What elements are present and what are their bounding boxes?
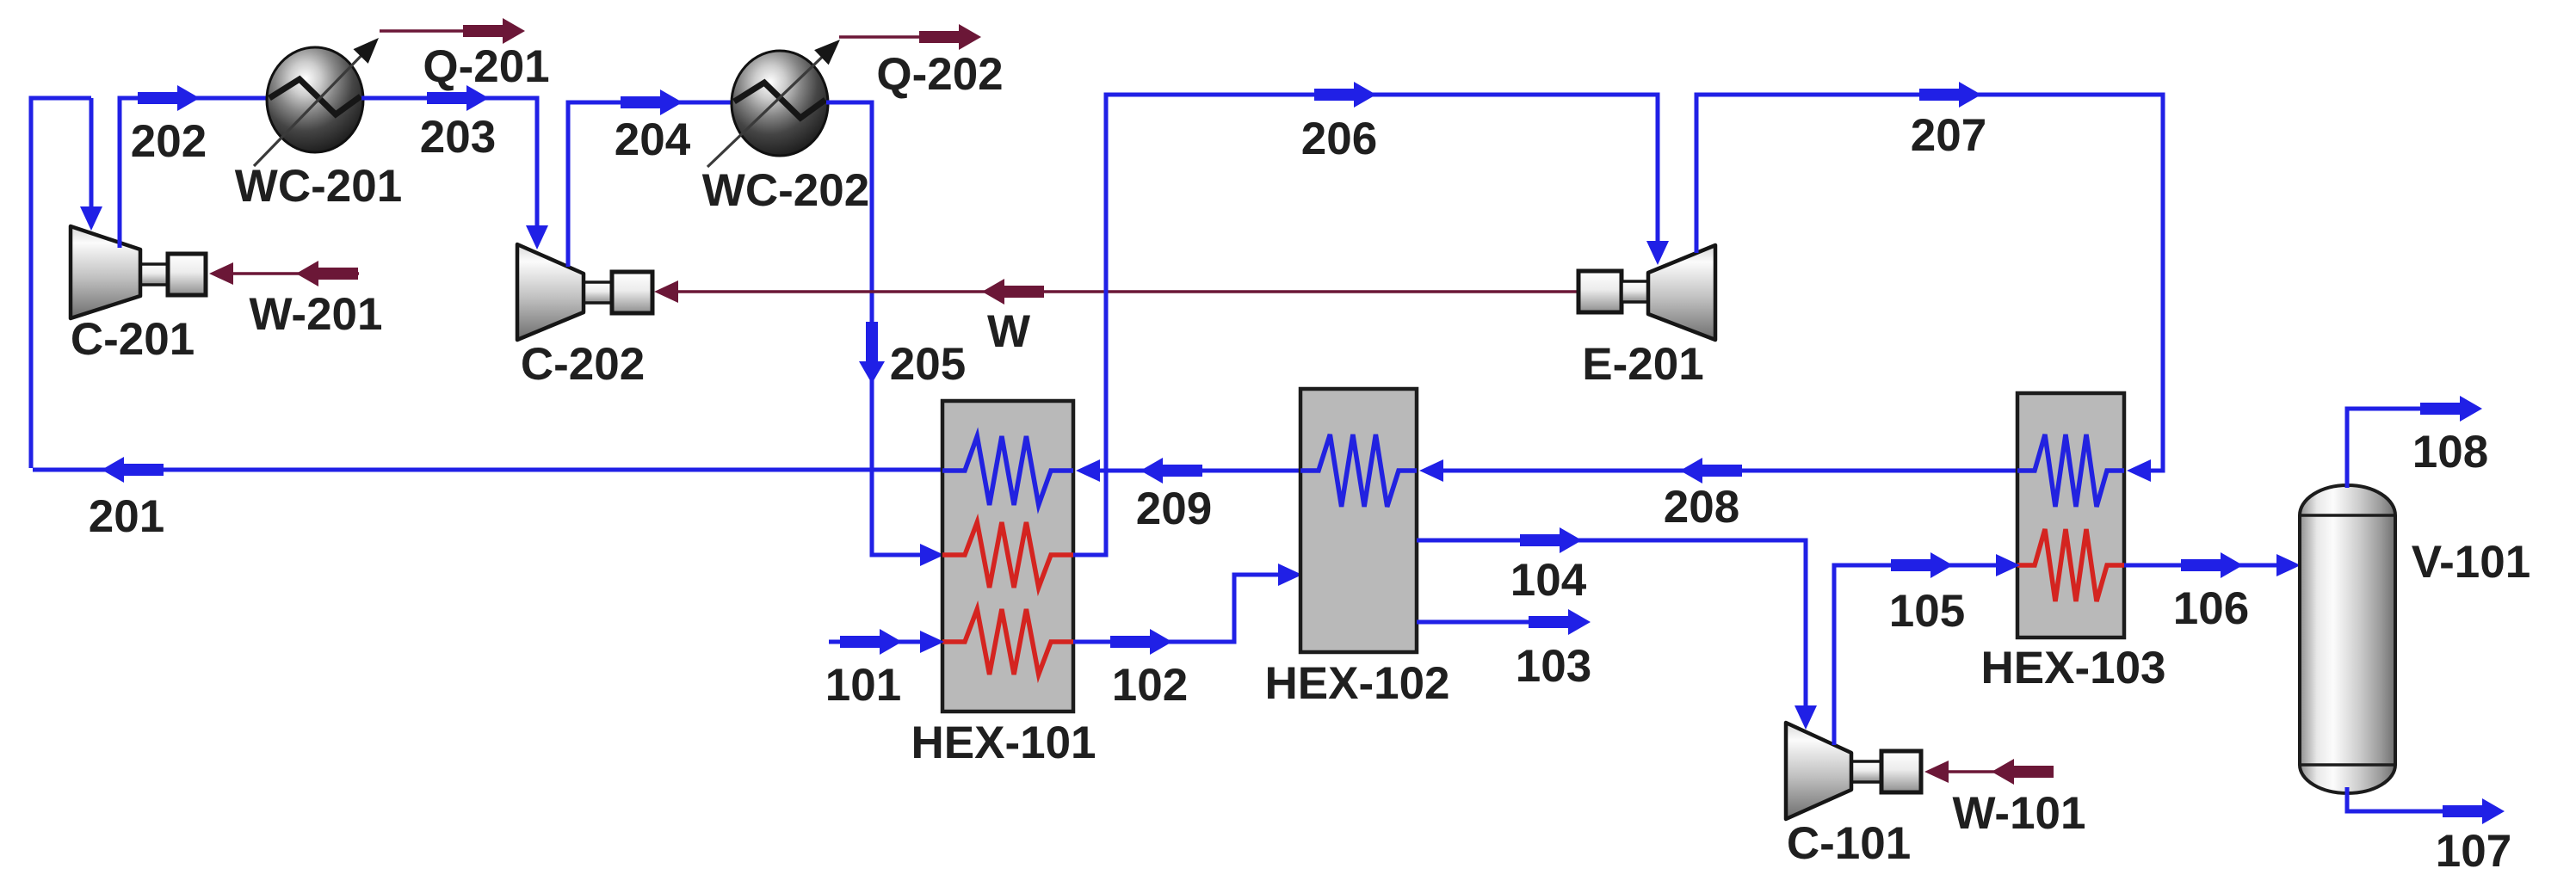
wire stream 101 feed line <box>829 640 921 644</box>
arrowhead into HEX-102 cold side <box>1419 459 1443 482</box>
wire stream 106 (HEX-103 to V-101) <box>2124 564 2276 568</box>
stream 103 direction arrow <box>1529 609 1591 635</box>
wire drop into C-201 inlet <box>90 98 94 212</box>
arrowhead into C-101 <box>1795 705 1817 730</box>
stream 201 label <box>89 491 164 542</box>
svg-text:204: 204 <box>615 114 691 165</box>
stream 206 label <box>1301 114 1377 164</box>
arrowhead into C-201 <box>80 206 102 231</box>
svg-text:W: W <box>987 306 1030 357</box>
stream 202 direction arrow <box>138 85 200 111</box>
HEX-101 label <box>911 718 1096 768</box>
wire stream 207 (E-201 to HEX-103) <box>1696 95 2163 471</box>
HEX-101 hot coil 1 (red) <box>942 522 1073 588</box>
svg-text:Q-202: Q-202 <box>876 49 1003 100</box>
stream 209 label <box>1136 484 1212 534</box>
arrowhead into C-202 <box>526 225 548 249</box>
HEX-103 label <box>1980 643 2165 693</box>
arrowhead into E-201 <box>1646 241 1669 265</box>
compressor C-202 label <box>521 339 645 390</box>
work stream W-101 label <box>1952 788 2085 839</box>
heat stream Q-202 direction arrow <box>919 24 981 50</box>
svg-text:WC-201: WC-201 <box>235 161 402 212</box>
stream 101 direction arrow <box>840 629 902 655</box>
heat exchanger HEX-102 shell <box>1300 389 1417 652</box>
HEX-103 cold coil (blue) <box>2017 434 2124 507</box>
heat exchanger HEX-103 shell <box>2017 393 2124 638</box>
work stream W direction arrow <box>982 279 1044 305</box>
arrowhead into HEX-101 cold side <box>1076 459 1100 482</box>
wire stream 105 (C-101 to HEX-103) <box>1834 565 1998 745</box>
stream 201 direction arrow <box>102 457 164 483</box>
stream 208 direction arrow <box>1680 458 1742 484</box>
stream 104 label <box>1510 555 1587 606</box>
svg-text:C-101: C-101 <box>1787 818 1911 869</box>
wire stream 205 (WC-202 outlet down to HEX-101) <box>826 102 923 555</box>
stream 202 label <box>131 116 207 167</box>
vessel V-101 label <box>2412 537 2531 588</box>
svg-text:103: 103 <box>1516 641 1591 692</box>
wire far-left vertical riser of stream 201 <box>31 98 91 468</box>
stream 106 label <box>2173 583 2249 634</box>
compressor C-201 label <box>71 314 195 365</box>
work stream W-201 label <box>249 289 382 340</box>
stream 204 direction arrow <box>621 89 683 115</box>
svg-text:205: 205 <box>890 339 966 390</box>
heat stream Q-201 line <box>380 29 469 33</box>
svg-text:W-101: W-101 <box>1952 788 2085 839</box>
stream 106 direction arrow <box>2181 552 2243 578</box>
wire stream 201 horizontal run (HEX-101 cold outlet to far left) <box>33 468 942 472</box>
svg-text:108: 108 <box>2412 427 2488 477</box>
work stream W-201 line <box>213 272 359 275</box>
wire stream 202 (C-201 outlet to cooler WC-201) <box>120 98 269 248</box>
work stream W-101 arrowhead at C-101 <box>1924 761 1949 783</box>
wire stream 204 (C-202 outlet to cooler WC-202) <box>568 102 732 267</box>
svg-text:201: 201 <box>89 491 164 542</box>
compressor C-202 <box>517 244 652 340</box>
stream 104 direction arrow <box>1520 527 1582 553</box>
arrowhead into HEX-103 cold side <box>2127 459 2151 482</box>
work stream W-101 line <box>1928 770 2051 773</box>
svg-text:104: 104 <box>1510 555 1587 606</box>
svg-text:202: 202 <box>131 116 207 167</box>
svg-text:107: 107 <box>2436 826 2511 877</box>
wire stream 209 (HEX-102 to HEX-101) <box>1081 469 1300 473</box>
stream 108 direction arrow <box>2420 396 2482 422</box>
HEX-102 cold coil (blue) <box>1300 434 1417 507</box>
svg-text:C-202: C-202 <box>521 339 645 390</box>
work stream W label <box>987 306 1030 357</box>
stream 105 label <box>1889 586 1965 637</box>
svg-text:209: 209 <box>1136 484 1212 534</box>
HEX-101 hot coil 2 (red) <box>942 609 1073 674</box>
stream 107 direction arrow <box>2443 798 2505 824</box>
stream 209 direction arrow <box>1140 458 1202 484</box>
svg-text:HEX-102: HEX-102 <box>1264 658 1449 709</box>
stream 205 label <box>890 339 966 390</box>
work stream W line (E-201 to C-202) <box>658 290 1578 293</box>
wire stream 107 (V-101 bottom product) <box>2347 787 2457 811</box>
svg-text:HEX-101: HEX-101 <box>911 718 1096 768</box>
svg-text:E-201: E-201 <box>1582 339 1703 390</box>
work stream W-201 arrowhead at C-201 <box>209 262 233 285</box>
stream 208 label <box>1664 482 1739 533</box>
compressor C-101 label <box>1787 818 1911 869</box>
compressor C-201 <box>71 226 206 318</box>
stream 105 direction arrow <box>1891 552 1953 578</box>
cooler WC-202 label <box>702 165 869 216</box>
vessel V-101 <box>2300 485 2395 793</box>
stream 203 direction arrow <box>427 85 489 111</box>
expander E-201 label <box>1582 339 1703 390</box>
heat stream Q-201 label <box>423 41 549 92</box>
svg-text:W-201: W-201 <box>249 289 382 340</box>
work stream W-101 direction arrow <box>1992 759 2054 785</box>
svg-text:101: 101 <box>825 660 901 711</box>
HEX-101 cold coil (blue) <box>942 436 1073 505</box>
svg-text:207: 207 <box>1911 110 1986 161</box>
stream 108 label <box>2412 427 2488 477</box>
svg-text:206: 206 <box>1301 114 1377 164</box>
HEX-102 label <box>1264 658 1449 709</box>
svg-text:V-101: V-101 <box>2412 537 2531 588</box>
cooler WC-201 symbol <box>267 47 363 152</box>
wire stream 104 (HEX-102 to C-101) <box>1417 540 1806 711</box>
wire stream 102 (HEX-101 to HEX-102) <box>1073 575 1279 642</box>
arrowhead into HEX-103 hot side <box>1996 554 2020 576</box>
compressor C-101 <box>1786 723 1921 819</box>
stream 204 label <box>615 114 691 165</box>
arrowhead into HEX-101 hot side 1 <box>920 544 944 566</box>
svg-text:Q-201: Q-201 <box>423 41 549 92</box>
arrowhead into HEX-102 <box>1278 564 1302 586</box>
expander E-201 <box>1578 245 1715 340</box>
svg-text:102: 102 <box>1112 660 1188 711</box>
svg-text:HEX-103: HEX-103 <box>1980 643 2165 693</box>
stream 203 label <box>420 112 496 163</box>
arrowhead into V-101 <box>2276 554 2301 576</box>
svg-text:203: 203 <box>420 112 496 163</box>
stream 103 label <box>1516 641 1591 692</box>
stream 107 label <box>2436 826 2511 877</box>
stream 205 direction arrow <box>859 322 885 384</box>
svg-text:105: 105 <box>1889 586 1965 637</box>
heat exchanger HEX-101 shell <box>942 401 1073 711</box>
cooler WC-202 diagonal vent arrow <box>707 40 840 167</box>
cooler WC-201 diagonal vent arrow <box>254 38 379 166</box>
wire stream 203 (WC-201 to C-202) <box>361 98 537 229</box>
wire stream 103 product line <box>1417 620 1549 625</box>
stream 206 direction arrow <box>1314 82 1376 108</box>
stream 101 label <box>825 660 901 711</box>
svg-text:WC-202: WC-202 <box>702 165 869 216</box>
stream 207 direction arrow <box>1919 82 1981 108</box>
heat stream Q-202 label <box>876 49 1003 100</box>
svg-text:106: 106 <box>2173 583 2249 634</box>
work stream W-201 direction arrow <box>296 261 358 286</box>
cooler WC-202 symbol <box>732 51 828 156</box>
stream 102 label <box>1112 660 1188 711</box>
svg-text:C-201: C-201 <box>71 314 195 365</box>
wire stream 206 (HEX-101 to expander E-201) <box>1073 95 1658 555</box>
work stream W arrowhead at C-202 <box>654 280 678 303</box>
heat stream Q-201 direction arrow <box>463 18 525 44</box>
cooler WC-201 label <box>235 161 402 212</box>
stream 102 direction arrow <box>1110 629 1172 655</box>
wire stream 108 (V-101 top product) <box>2347 409 2436 488</box>
heat stream Q-202 line <box>839 35 925 39</box>
wire stream 208 (HEX-103 to HEX-102) <box>1424 469 2017 473</box>
arrowhead into HEX-101 hot side 2 <box>920 631 944 653</box>
svg-text:208: 208 <box>1664 482 1739 533</box>
HEX-103 hot coil (red) <box>2017 529 2124 601</box>
stream 207 label <box>1911 110 1986 161</box>
